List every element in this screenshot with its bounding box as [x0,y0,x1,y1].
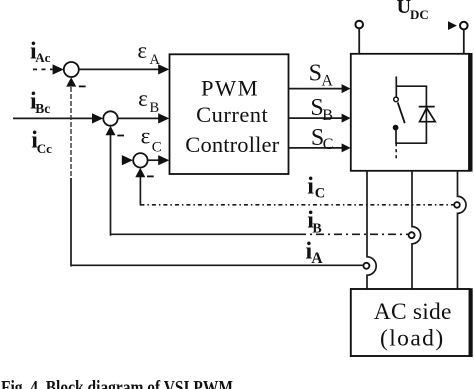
svg-text:PWM: PWM [201,76,259,101]
block inverter bridge [351,54,469,171]
wire S_B [289,117,344,119]
wire i_C feedback tap (dash-dot) [140,204,454,206]
label S_B [310,95,332,124]
svg-text:S: S [309,61,322,87]
label eps_C [141,124,162,156]
svg-text:ε: ε [138,86,148,111]
label eps_A [137,38,160,68]
switch lower lead [395,130,397,144]
diode D1 triangle [420,108,436,122]
arrowhead S_C into inverter [342,143,351,152]
summing junction J2 [103,111,117,125]
wire i_B feedback tap (dash-dot) [111,233,299,235]
label i_B [307,208,322,237]
wire i_Ac reference input (dashed) [33,68,53,70]
svg-text:AC side: AC side [374,299,452,325]
svg-text:U: U [397,0,411,18]
minus sign at J1 feedback [79,85,86,87]
svg-text:C: C [152,139,162,155]
DC- terminal [460,22,468,54]
wire feedback vertical A (upper dashed) [70,87,72,178]
switch upper contact [394,97,399,102]
wire phase C from inverter [458,171,467,289]
svg-text:C: C [315,186,325,202]
diode D1 cathode bar [419,106,435,108]
switch drop to contact [395,86,397,97]
wire feedback vertical B [110,135,112,236]
label i_Ac [30,39,51,65]
wire phase B from inverter [412,171,421,289]
svg-text:(load): (load) [380,325,445,351]
wire feedback vertical C [139,176,141,205]
svg-text:C: C [323,136,334,153]
label eps_B [138,86,159,116]
wire bottom rail of leg [396,142,428,144]
svg-text:DC: DC [410,7,429,22]
arrowhead at DC- terminal [448,21,457,30]
svg-text:ε: ε [141,124,151,149]
wire J2 output eps_B [118,117,160,119]
svg-text:i: i [307,173,314,199]
label i_Bc [30,89,50,117]
wire phase A from inverter [367,171,376,289]
wire top rail of leg [396,85,428,87]
inverter right edge (thick) [469,53,473,172]
arrowhead feedback B into J2 [106,126,116,135]
summing junction J1 [64,62,79,77]
arrowhead feedback A into J1 [66,77,76,86]
arrowhead i_Ac into summer J1 [53,64,64,74]
arrowhead eps_B into PWM block [158,113,169,123]
current sensor A [363,263,369,269]
leg bottom stub (faint) [395,143,397,160]
label i_C [307,173,325,201]
current sensor B [409,232,415,238]
svg-text:Bc: Bc [35,101,50,116]
AC side block right edge (thick) [469,288,472,357]
switch upper lead [395,76,397,87]
svg-text:Current: Current [196,102,268,127]
label U_DC [397,0,429,22]
wire i_Bc reference input [13,117,92,119]
arrowhead S_B into inverter [342,114,351,123]
wire diode branch [425,86,427,143]
svg-text:B: B [150,100,160,116]
arrowhead eps_C into PWM block [158,155,169,165]
wire J3 output eps_C [148,159,160,161]
block AC side (load) [351,289,470,356]
svg-text:Cc: Cc [37,141,52,156]
arrowhead feedback C into J3 [135,168,145,177]
svg-text:Fig. 4. Block diagram of VSI P: Fig. 4. Block diagram of VSI PWM [1,378,233,389]
arrowhead S_A into inverter [342,84,351,93]
label i_Cc [31,128,52,156]
svg-text:Ac: Ac [35,50,50,65]
current sensor C [454,202,460,208]
block U1: PWM Current Controller [170,54,289,174]
svg-text:B: B [322,107,333,124]
arrowhead eps_A into PWM block [158,64,169,74]
wire S_A [289,88,344,90]
minus sign at J3 feedback [147,175,154,177]
switch blade Q1 [398,102,405,123]
label S_C [311,125,333,153]
wire i_A feedback tap [71,264,363,266]
wire feedback vertical A (lower) [70,178,72,267]
DC+ terminal [355,21,363,54]
svg-text:ε: ε [137,38,147,63]
svg-text:Controller: Controller [185,132,279,157]
label i_A [306,239,324,267]
label S_A [309,61,334,90]
wire J1 output eps_A [79,68,160,70]
arrowhead i_Cc into summer J3 [122,155,133,165]
minus sign at J2 feedback [117,135,124,137]
switch lower contact [393,125,398,130]
summing junction J3 [133,153,147,167]
wire S_C [289,147,344,149]
arrowhead i_Bc into summer J2 [92,113,103,123]
svg-text:A: A [321,73,333,90]
svg-text:A: A [149,52,160,68]
